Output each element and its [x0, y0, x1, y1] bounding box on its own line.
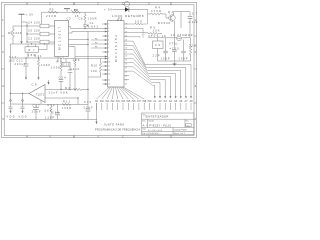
- svg-text:A4: A4: [143, 124, 149, 128]
- arrow varicap1: [9, 111, 11, 113]
- frame tick bottom 3: [148, 136, 150, 138]
- wire +5V stem down: [21, 14, 23, 41]
- svg-text:9: 9: [108, 58, 109, 60]
- svg-text:14: 14: [108, 80, 110, 82]
- svg-text:C: C: [122, 1, 124, 5]
- svg-text:R6: R6: [74, 8, 79, 12]
- svg-text:6: 6: [108, 44, 109, 46]
- wire y89.5: [50, 88, 88, 90]
- svg-text:A: A: [26, 134, 28, 138]
- svg-text:P5: P5: [95, 42, 97, 44]
- wire pin jog: [70, 27, 72, 29]
- resistor R10 10K: [88, 59, 102, 78]
- border frame outer: [2, 3, 197, 138]
- svg-text:100P: 100P: [161, 57, 170, 61]
- capacitor 22uF: [68, 66, 73, 89]
- LED D8 circle: [124, 1, 129, 6]
- svg-text:C14: C14: [59, 77, 67, 80]
- IC1 left pin arrows: [105, 23, 108, 85]
- junction dots ladder: [26, 25, 27, 42]
- svg-text:D8: D8: [117, 18, 123, 22]
- svg-text:BC548: BC548: [158, 21, 171, 25]
- svg-text:P4: P4: [95, 38, 97, 40]
- resistor R5t 10K: [148, 32, 162, 34]
- svg-text:P6: P6: [95, 46, 97, 48]
- varicap 1: [9, 104, 13, 113]
- arrow varicap2: [21, 111, 23, 113]
- svg-text:R10: R10: [91, 63, 98, 67]
- svg-text:100R: 100R: [62, 107, 71, 110]
- wire x75 down with 10K: [74, 57, 76, 90]
- component C13b box: [62, 62, 70, 66]
- svg-text:Rev: Rev: [186, 120, 189, 122]
- svg-text:D: D: [170, 134, 172, 138]
- wire to IC1 y31.5: [72, 32, 108, 34]
- arrow A0: [95, 122, 97, 125]
- svg-text:1: 1: [108, 24, 109, 26]
- wire box top: [65, 59, 67, 63]
- wire bottom crystal rail: [158, 60, 191, 62]
- svg-text:C11: C11: [35, 55, 43, 58]
- svg-text:/N5: /N5: [126, 100, 131, 103]
- resistor R5 220R top: [48, 11, 58, 13]
- frame tick bottom 1: [49, 136, 51, 138]
- capacitor 100P b: [181, 40, 186, 62]
- capacitor C17: [33, 104, 39, 120]
- resistor 2.2M: [189, 38, 191, 61]
- svg-text:2: 2: [108, 28, 109, 30]
- svg-text:C15: C15: [84, 101, 92, 104]
- wire y104 row: [10, 103, 88, 106]
- resistor R6b 1K top: [72, 11, 80, 13]
- IC1 pin numbers left: [108, 24, 110, 86]
- svg-text:C9: C9: [155, 43, 161, 47]
- svg-text:100R: 100R: [88, 16, 97, 20]
- wire y58 left: [10, 57, 61, 59]
- frame tick top 3: [148, 3, 150, 5]
- program pad labels: [95, 100, 193, 103]
- svg-text:15: 15: [125, 76, 127, 78]
- IC2 right pin stubs: [69, 26, 71, 28]
- svg-text:C2 22K: C2 22K: [28, 37, 40, 41]
- svg-text:/N4: /N4: [121, 100, 126, 103]
- arrow pwr1: [37, 77, 39, 80]
- frame tick top 2: [97, 3, 99, 5]
- wire pin ref: [124, 37, 140, 38]
- node bus left: [26, 22, 28, 42]
- svg-text:10K: 10K: [73, 59, 80, 62]
- svg-text:01-08-2006: 01-08-2006: [148, 130, 162, 132]
- svg-text:PROGRAMACAO DE FREQUENCIA: PROGRAMACAO DE FREQUENCIA: [95, 129, 140, 132]
- wire jog to bus: [22, 21, 28, 23]
- svg-text:1N2 C12: 1N2 C12: [9, 59, 24, 62]
- svg-text:56K: 56K: [45, 110, 52, 113]
- svg-text:SINTETIZADOR: SINTETIZADOR: [145, 115, 168, 119]
- svg-text:D: D: [170, 1, 172, 5]
- vertical bus x88: [87, 32, 89, 105]
- svg-text:R9: R9: [57, 61, 63, 64]
- wire R7 box bottom stub: [27, 52, 29, 58]
- net labels left pins: [95, 38, 97, 48]
- wire vert2: [22, 94, 24, 105]
- svg-text:TL071: TL071: [36, 93, 45, 96]
- svg-text:22: 22: [125, 48, 127, 50]
- svg-text:18: 18: [125, 64, 127, 66]
- svg-text:B: B: [73, 134, 75, 138]
- wire row 2: [27, 33, 55, 35]
- resistor R5 22K (row2): [40, 32, 49, 36]
- wire box stubs: [27, 44, 29, 47]
- arrow C12 down: [25, 77, 27, 80]
- svg-text:Size: Size: [142, 120, 145, 122]
- svg-text:10K: 10K: [153, 29, 160, 33]
- svg-text:C8: C8: [32, 83, 38, 87]
- svg-text:R12: R12: [48, 104, 56, 107]
- wire opamp out: [10, 93, 29, 95]
- svg-text:C16: C16: [52, 111, 60, 114]
- wire LED: [113, 9, 149, 11]
- svg-text:10K: 10K: [91, 69, 97, 73]
- wire opamp bottom: [40, 100, 42, 104]
- wire to IC1 y28.5: [71, 28, 108, 30]
- svg-text:22K: 22K: [16, 31, 22, 35]
- frame tick right 3: [194, 102, 197, 104]
- svg-text:File: C:\PLL01.SCH: File: C:\PLL01.SCH: [142, 133, 159, 135]
- svg-text:100P: 100P: [179, 57, 188, 61]
- junction dot bus: [25, 28, 88, 90]
- rev inner box: [186, 124, 191, 127]
- svg-text:19: 19: [125, 60, 127, 62]
- svg-text:C: C: [122, 134, 124, 138]
- title block outer: [142, 113, 195, 135]
- op IC U1 MC145152: [108, 21, 125, 88]
- frame grid letters: [2, 1, 196, 138]
- svg-text:10: 10: [108, 62, 110, 64]
- resistor R9 vertical: [60, 59, 62, 80]
- svg-text:C7: C7: [192, 12, 198, 16]
- svg-text:B: B: [73, 1, 75, 5]
- svg-text:12: 12: [108, 70, 110, 72]
- svg-text:4: 4: [108, 36, 109, 38]
- op-amp U3 TL071: [29, 85, 45, 103]
- op IC U2 MC12017: [55, 21, 69, 57]
- arrowheads into IC1: [105, 28, 108, 60]
- svg-text:13: 13: [125, 84, 127, 86]
- svg-text:5: 5: [108, 40, 109, 42]
- svg-text:/N9: /N9: [148, 100, 153, 103]
- capacitor C10: [172, 38, 177, 61]
- program pad stubs: [97, 103, 192, 110]
- svg-text:C17: C17: [33, 104, 41, 107]
- svg-text:VDD: VDD: [7, 115, 15, 118]
- wire pin OSC1: [124, 28, 143, 38]
- capacitor C16: [55, 104, 60, 120]
- svg-text:LOCK DETECT: LOCK DETECT: [112, 14, 141, 18]
- svg-text:C13: C13: [9, 56, 17, 59]
- svg-text:R5: R5: [50, 8, 55, 12]
- wire left bus: [9, 44, 11, 104]
- wire ground rail: [9, 119, 97, 121]
- wire crystal rail: [148, 37, 190, 39]
- wire IC2 to IC1 y56.5: [75, 47, 108, 57]
- svg-text:8: 8: [108, 52, 109, 54]
- svg-text:C13: C13: [63, 65, 70, 67]
- wire Q1 emitter down: [174, 21, 176, 38]
- svg-text:Number: Number: [149, 120, 155, 122]
- svg-text:7: 7: [108, 48, 109, 50]
- svg-text:10K: 10K: [135, 19, 142, 23]
- junction dots left: [10, 43, 46, 94]
- capacitor C14 vertical: [59, 80, 64, 90]
- pad circles: [10, 100, 24, 102]
- wire opamp in+: [45, 89, 50, 91]
- svg-text:Sheet 1 of 1: Sheet 1 of 1: [174, 132, 185, 135]
- svg-text:/N7: /N7: [137, 100, 142, 103]
- resistor R2 22K (row3): [40, 40, 49, 44]
- svg-text:10.240MHZ: 10.240MHZ: [171, 33, 193, 37]
- transistor Q1 BC548: [169, 15, 175, 21]
- svg-text:11: 11: [108, 66, 110, 68]
- svg-text:C5 22K: C5 22K: [28, 29, 40, 33]
- staircase bus wires: [124, 41, 191, 97]
- junction dot r11: [77, 97, 78, 98]
- IC2 bottom pins: [57, 57, 59, 63]
- resistor R4t 470R: [148, 13, 169, 18]
- svg-text:2.2uF: 2.2uF: [189, 20, 198, 24]
- svg-text:17: 17: [125, 68, 127, 70]
- arrow on +5V stem: [20, 41, 22, 44]
- IC1 pin numbers right: [125, 24, 127, 86]
- svg-text:27: 27: [125, 28, 127, 30]
- crystal circle: [177, 36, 182, 41]
- frame tick left 2: [2, 68, 5, 70]
- frame tick left 3: [2, 102, 5, 104]
- resistor R6 vertical: [12, 26, 27, 44]
- ground symbol: [174, 61, 176, 64]
- svg-text:R6: R6: [8, 31, 13, 35]
- resistor C11 100K: [37, 58, 39, 77]
- power +5V symbol 1: [19, 13, 25, 15]
- diode D1: [84, 24, 88, 27]
- capacitor C7: [188, 12, 193, 38]
- wire opamp in-: [45, 97, 78, 99]
- svg-text:/N8: /N8: [142, 100, 147, 103]
- staircase arrows: [154, 96, 192, 98]
- wire pin LD via 10K: [124, 10, 148, 38]
- svg-text:- JUNTE PARA: - JUNTE PARA: [101, 124, 124, 127]
- svg-text:PYECEY - PLL01: PYECEY - PLL01: [149, 125, 171, 128]
- svg-text:C4 22K: C4 22K: [28, 21, 40, 25]
- title block row lines: [142, 118, 195, 120]
- varicap 2: [21, 104, 25, 113]
- svg-text:A: A: [26, 1, 28, 5]
- resistor R11: [62, 98, 78, 106]
- wire row 1: [27, 25, 55, 27]
- LED D8 diode: [125, 7, 129, 11]
- capacitor C15: [86, 105, 91, 120]
- svg-text:C6: C6: [79, 16, 84, 20]
- svg-text:15: 15: [108, 84, 110, 86]
- wire IC2 pin to bus: [72, 39, 88, 41]
- capacitor 100P a: [163, 38, 168, 61]
- svg-text:20: 20: [125, 56, 127, 58]
- frame tick left 1: [2, 35, 5, 37]
- resistor R4 22K (row1): [40, 24, 49, 28]
- wire lower right stubs: [124, 74, 129, 76]
- wire row 3: [27, 41, 55, 43]
- svg-text:Q1: Q1: [168, 10, 174, 14]
- resistor R12: [50, 104, 52, 120]
- border frame inner: [4, 5, 194, 136]
- svg-text:68K: 68K: [61, 91, 68, 94]
- svg-text:/N0: /N0: [100, 100, 105, 103]
- power +5V symbol 2: [64, 8, 70, 10]
- svg-text:/N6: /N6: [132, 100, 137, 103]
- wire top rail: [42, 11, 97, 13]
- svg-text:/N1: /N1: [105, 100, 110, 103]
- svg-text:Drawn by: PY2CEY: Drawn by: PY2CEY: [174, 129, 188, 132]
- IC1 left pin stubs: [63, 24, 108, 84]
- svg-text:16: 16: [125, 72, 127, 74]
- component R7 box: [25, 47, 39, 52]
- svg-text:R11: R11: [63, 101, 71, 104]
- frame tick top 1: [49, 3, 51, 5]
- capacitor C12 chain x=26: [24, 58, 29, 77]
- wire opamp pwr 2: [48, 80, 50, 85]
- wire y44.5 to bus: [69, 44, 89, 46]
- wire A0 long: [96, 103, 98, 124]
- arrow pwr2: [47, 82, 49, 85]
- frame tick bottom 2: [97, 136, 99, 138]
- svg-text:21: 21: [125, 52, 127, 54]
- svg-text:XTAL: XTAL: [169, 42, 179, 46]
- frame tick right 2: [194, 68, 197, 70]
- wire y44 row: [10, 43, 54, 45]
- title block col lines: [146, 119, 148, 127]
- svg-text:22M: 22M: [189, 44, 196, 48]
- svg-text:/N2: /N2: [110, 100, 115, 103]
- svg-text:22P: 22P: [153, 53, 160, 57]
- svg-text:C8: C8: [139, 14, 145, 18]
- svg-text:/N3: /N3: [116, 100, 121, 103]
- svg-text:3: 3: [108, 31, 109, 33]
- wire Q1 collector: [173, 12, 175, 15]
- frame tick right 1: [194, 35, 197, 37]
- trimmer C9 box: [153, 41, 164, 49]
- wire pin OSC2: [124, 32, 148, 35]
- wire right small stub: [180, 12, 182, 28]
- svg-text:+ 5V: + 5V: [26, 13, 33, 17]
- resistor C6 100R: [84, 12, 86, 28]
- wire top right rail: [174, 11, 191, 13]
- svg-text:13: 13: [108, 74, 110, 76]
- svg-text:C2: C2: [67, 17, 72, 21]
- svg-text:R4: R4: [155, 6, 161, 10]
- svg-text:CT1 2- 10: CT1 2- 10: [149, 34, 167, 38]
- svg-text:+ 5V: + 5V: [104, 7, 112, 11]
- svg-text:VDD: VDD: [19, 115, 27, 118]
- wire rail left drop: [41, 12, 43, 24]
